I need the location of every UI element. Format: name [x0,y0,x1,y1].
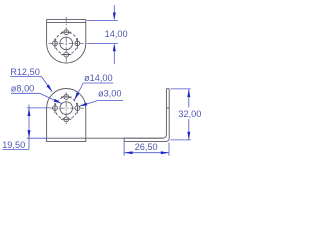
top view hole E [75,41,80,46]
dim 19,50 arrow up [28,108,31,116]
top view bend line [47,21,86,23]
dim 32,00 arrow down [187,132,190,140]
top view hole N [64,30,69,35]
top view horizontal centerline [49,42,88,44]
label R12,50 underline [10,76,42,78]
label Ø14,00 arrow [73,92,79,100]
front view hole E [75,106,80,111]
dim 32,00 arrow up [187,89,190,97]
label R12,50 arrow [46,85,53,93]
svg-text:14,00: 14,00 [105,29,128,39]
label Ø3,00 leader [79,101,97,107]
side view outline [124,89,169,142]
svg-text:ø3,00: ø3,00 [98,89,122,99]
front view vertical centerline [65,92,67,124]
front view center hole Ø8 [60,102,73,115]
dim 26,50 arrow right [161,151,169,154]
label Ø8,00 leader [40,93,62,103]
front view hole W [53,106,58,111]
svg-text:32,00: 32,00 [178,109,201,119]
label Ø14,00 leader [74,83,83,100]
dim 32,00 extension line top [170,88,190,90]
dim 19,50 arrow down [28,130,31,138]
front view horizontal centerline [50,107,84,109]
dim 19,50 underline [3,148,30,150]
dim 26,50 extension line right [168,143,170,156]
dim 26,50 arrow left [125,151,133,154]
svg-text:19,50: 19,50 [2,140,25,150]
svg-text:ø8,00: ø8,00 [11,84,35,94]
svg-text:ø14,00: ø14,00 [84,73,113,83]
svg-text:26,50: 26,50 [135,142,158,152]
label R12,50 leader [42,77,53,92]
top view center hole Ø8 [60,37,73,50]
front view bolt circle Ø14 [55,97,77,119]
top view bolt circle Ø14 [55,32,77,54]
front view hole S [64,117,69,122]
dim 14,00 extension line top [87,19,118,21]
front view bend line [47,137,164,139]
label Ø14,00 underline [83,82,113,84]
front view hole N [64,95,69,100]
dim 14,00 arrow up [113,43,116,51]
dim 26,50 extension line left [123,142,125,156]
dim 19,50 extension line bottom [27,137,47,139]
dim 26,50 dimension line [125,152,169,154]
side view tangent line [166,107,169,109]
top view vertical centerline [65,17,67,62]
dim 14,00 dimension line [113,5,115,13]
top view hole S [64,52,69,57]
dim 14,00 extension line bottom [88,42,118,44]
label Ø8,00 arrow [54,99,63,105]
top view hole W [53,41,58,46]
top view outline [47,20,86,63]
dim 32,00 extension line bottom [170,139,190,141]
dim 19,50 dimension line [28,105,30,150]
label Ø8,00 underline [11,92,40,94]
dim 14,00 arrow down [113,13,116,21]
dim 32,00 dimension line [188,89,190,108]
label Ø3,00 arrow [79,102,88,107]
front view outline [47,89,86,142]
dim 19,50 extension line top [27,107,50,109]
svg-text:R12,50: R12,50 [10,67,40,77]
label Ø3,00 underline [98,100,124,102]
